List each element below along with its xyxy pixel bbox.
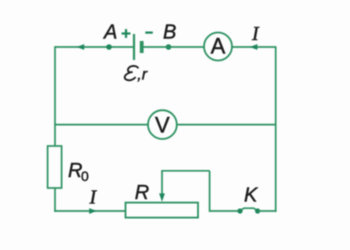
- wire slider right vertical: [209, 171, 211, 212]
- battery plus sign: [122, 29, 131, 38]
- wire ammeter to top-right corner: [232, 46, 276, 48]
- ammeter A: [204, 33, 232, 61]
- battery cell E,r : short thick plate: [140, 41, 144, 53]
- svg-text:V: V: [155, 112, 170, 137]
- svg-text:I: I: [251, 23, 260, 45]
- label I bottom-left: [89, 187, 98, 209]
- label R0: [68, 160, 89, 184]
- battery cell E,r : long plate: [133, 34, 135, 60]
- label K: [244, 185, 259, 207]
- wire right vertical: [275, 46, 277, 212]
- wire battery to ammeter: [144, 46, 205, 48]
- label R: [135, 182, 149, 204]
- svg-text:A: A: [103, 22, 117, 44]
- svg-text:0: 0: [81, 168, 89, 184]
- rheostat R body: [126, 203, 199, 218]
- wire left vertical upper: [54, 46, 56, 146]
- svg-text:,r: ,r: [137, 67, 147, 84]
- node B: [166, 44, 172, 50]
- wire voltmeter right: [177, 124, 276, 126]
- wire left vertical lower: [54, 188, 56, 212]
- wire switch to bottom-right corner: [258, 210, 277, 212]
- arrow current top-left: [77, 44, 85, 50]
- svg-text:K: K: [244, 185, 259, 207]
- voltmeter V: [148, 110, 177, 139]
- arrow current top-right: [250, 44, 258, 50]
- wire bottom-left: [54, 210, 125, 212]
- wire slider to switch: [210, 210, 240, 212]
- arrow current bottom-left: [89, 208, 97, 214]
- svg-text:A: A: [211, 33, 226, 58]
- switch K right contact: [255, 208, 260, 213]
- label B: [163, 22, 176, 44]
- rheostat slider arrow: [159, 171, 165, 202]
- label EMF script E, r: [125, 66, 148, 84]
- svg-text:I: I: [89, 187, 98, 209]
- label A: [103, 22, 117, 44]
- battery minus sign: [145, 31, 153, 33]
- resistor R0: [48, 146, 62, 188]
- wire top-left segment: [55, 46, 134, 48]
- svg-text:R: R: [135, 182, 149, 204]
- switch K left contact: [237, 208, 242, 213]
- node A: [106, 44, 112, 50]
- wire slider top: [161, 170, 209, 172]
- svg-text:B: B: [163, 22, 176, 44]
- label I top-right: [251, 23, 260, 45]
- switch K blade: [240, 208, 258, 211]
- wire voltmeter left: [55, 124, 148, 126]
